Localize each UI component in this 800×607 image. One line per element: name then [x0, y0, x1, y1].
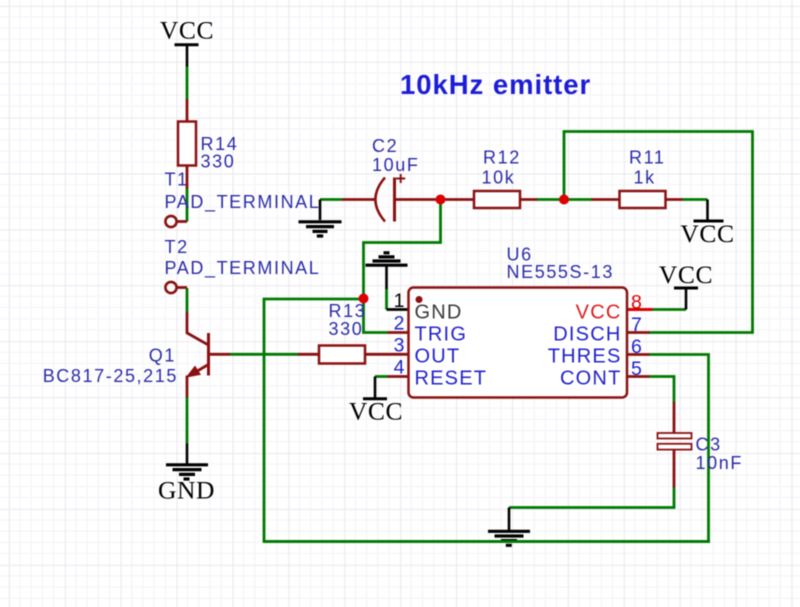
- lead junction to R12: [441, 198, 475, 201]
- svg-text:330: 330: [201, 152, 236, 172]
- svg-text:GND: GND: [415, 302, 463, 324]
- pin 8 stub red: [628, 308, 653, 311]
- junction node C2-R12: [436, 195, 446, 205]
- pin 4 stub: [388, 375, 409, 378]
- IC U6 NE555S-13: [394, 245, 642, 398]
- ground below Q1: [158, 444, 215, 505]
- wire DISCH pin7 to node B top route: [564, 132, 753, 333]
- svg-text:6: 6: [631, 336, 642, 358]
- junction node R12-R11-DISCH: [559, 195, 569, 205]
- wire CONT pin5 to C3: [649, 377, 674, 403]
- power VCC at pin4: [349, 377, 403, 426]
- power VCC at R11: [680, 200, 734, 249]
- wire node B to R11: [564, 198, 592, 201]
- svg-text:PAD_TERMINAL: PAD_TERMINAL: [165, 258, 321, 279]
- pin 7 stub: [628, 331, 650, 334]
- svg-text:1k: 1k: [634, 168, 656, 188]
- svg-text:NE555S-13: NE555S-13: [507, 262, 614, 282]
- lead T1 pad stub: [177, 220, 188, 223]
- wire Q1 emitter to GND: [186, 397, 189, 444]
- svg-text:R13: R13: [329, 301, 367, 321]
- wire T1 node to C2: [320, 198, 342, 201]
- wire THRES pin6 to TRIG node long route: [264, 299, 709, 542]
- lead R13 left: [298, 353, 320, 356]
- svg-text:VCC: VCC: [576, 302, 622, 324]
- resistor R14: [178, 122, 196, 166]
- svg-text:VCC: VCC: [349, 397, 403, 426]
- pin 3 stub and R13 right lead: [365, 353, 409, 356]
- lead C3 top: [673, 402, 676, 434]
- resistor R11: [620, 191, 666, 208]
- lead VCC to R14 top pin: [186, 99, 189, 122]
- power VCC at pin8: [659, 260, 713, 310]
- ground at T1/C2 wire: [299, 200, 342, 237]
- pin 2 stub: [388, 331, 409, 334]
- lead R14 bottom pin: [186, 166, 189, 189]
- wire Q1 base to R13: [230, 353, 299, 356]
- svg-text:10kHz emitter: 10kHz emitter: [400, 69, 591, 100]
- svg-text:10k: 10k: [482, 168, 516, 188]
- lead T1 wire to C2 left: [342, 198, 376, 201]
- svg-text:VCC: VCC: [680, 219, 734, 248]
- svg-text:DISCH: DISCH: [553, 324, 621, 346]
- svg-text:OUT: OUT: [415, 346, 461, 368]
- svg-text:R11: R11: [629, 148, 666, 168]
- svg-text:C3: C3: [696, 435, 722, 455]
- svg-text:THRES: THRES: [548, 346, 622, 368]
- svg-text:3: 3: [394, 335, 405, 357]
- svg-text:10uF: 10uF: [372, 155, 419, 175]
- svg-text:TRIG: TRIG: [415, 324, 468, 346]
- svg-text:7: 7: [631, 314, 642, 336]
- wire VCC to R14: [186, 66, 189, 100]
- lead R12 right: [520, 198, 537, 201]
- junction node A TRIG: [359, 294, 369, 304]
- svg-text:1: 1: [394, 290, 405, 312]
- pin 5 stub: [628, 375, 650, 378]
- lead R11 right: [666, 198, 683, 201]
- svg-text:Q1: Q1: [149, 346, 176, 366]
- resistor R13: [319, 346, 365, 364]
- wire T2 pad to Q1 collector: [186, 288, 189, 312]
- wire C3 to GND: [509, 487, 674, 508]
- wire R11 to VCC: [682, 198, 708, 201]
- capacitor C2: [372, 136, 419, 222]
- wire RESET pin4 to VCC: [375, 375, 388, 378]
- svg-text:CONT: CONT: [560, 368, 621, 390]
- svg-text:PAD_TERMINAL: PAD_TERMINAL: [165, 192, 321, 213]
- svg-text:5: 5: [631, 358, 642, 380]
- svg-text:GND: GND: [158, 476, 215, 505]
- svg-text:8: 8: [631, 292, 642, 314]
- ground above pin1 inverted: [366, 253, 408, 289]
- wire R12 to node B: [537, 198, 565, 201]
- wire node A to TRIG pin2: [364, 299, 388, 333]
- svg-text:330: 330: [329, 319, 364, 339]
- lead T2 pad stub: [177, 286, 188, 289]
- svg-text:10nF: 10nF: [696, 453, 743, 473]
- ground at C3 bottom: [488, 508, 530, 546]
- lead C2 right to junction: [395, 198, 441, 201]
- lead C3 bottom: [673, 449, 676, 488]
- wire ground to GND pin1 vertical: [385, 289, 388, 310]
- svg-text:T1: T1: [165, 170, 189, 190]
- svg-text:VCC: VCC: [160, 16, 214, 45]
- svg-text:R12: R12: [483, 148, 521, 168]
- svg-text:4: 4: [394, 357, 405, 379]
- wire R14 to T1 pad: [186, 188, 189, 222]
- svg-text:2: 2: [394, 313, 405, 335]
- lead R11 left: [592, 198, 620, 201]
- wire THRES bottom segment: [264, 540, 710, 543]
- capacitor C3: [658, 433, 743, 473]
- transistor Q1: [43, 312, 230, 398]
- power VCC top-left: [160, 16, 214, 67]
- wire pin1 black: [387, 308, 409, 311]
- svg-text:VCC: VCC: [659, 260, 713, 289]
- pin 6 stub: [628, 353, 650, 356]
- svg-text:RESET: RESET: [415, 368, 488, 390]
- wire C2 node down to node A: [364, 200, 441, 299]
- svg-text:C2: C2: [372, 136, 398, 156]
- pad T1: [165, 216, 176, 227]
- svg-text:T2: T2: [165, 237, 189, 257]
- svg-text:BC817-25,215: BC817-25,215: [43, 366, 178, 386]
- resistor R12: [474, 191, 520, 208]
- wire pin8 to VCC: [653, 308, 687, 311]
- pad T2: [165, 282, 176, 293]
